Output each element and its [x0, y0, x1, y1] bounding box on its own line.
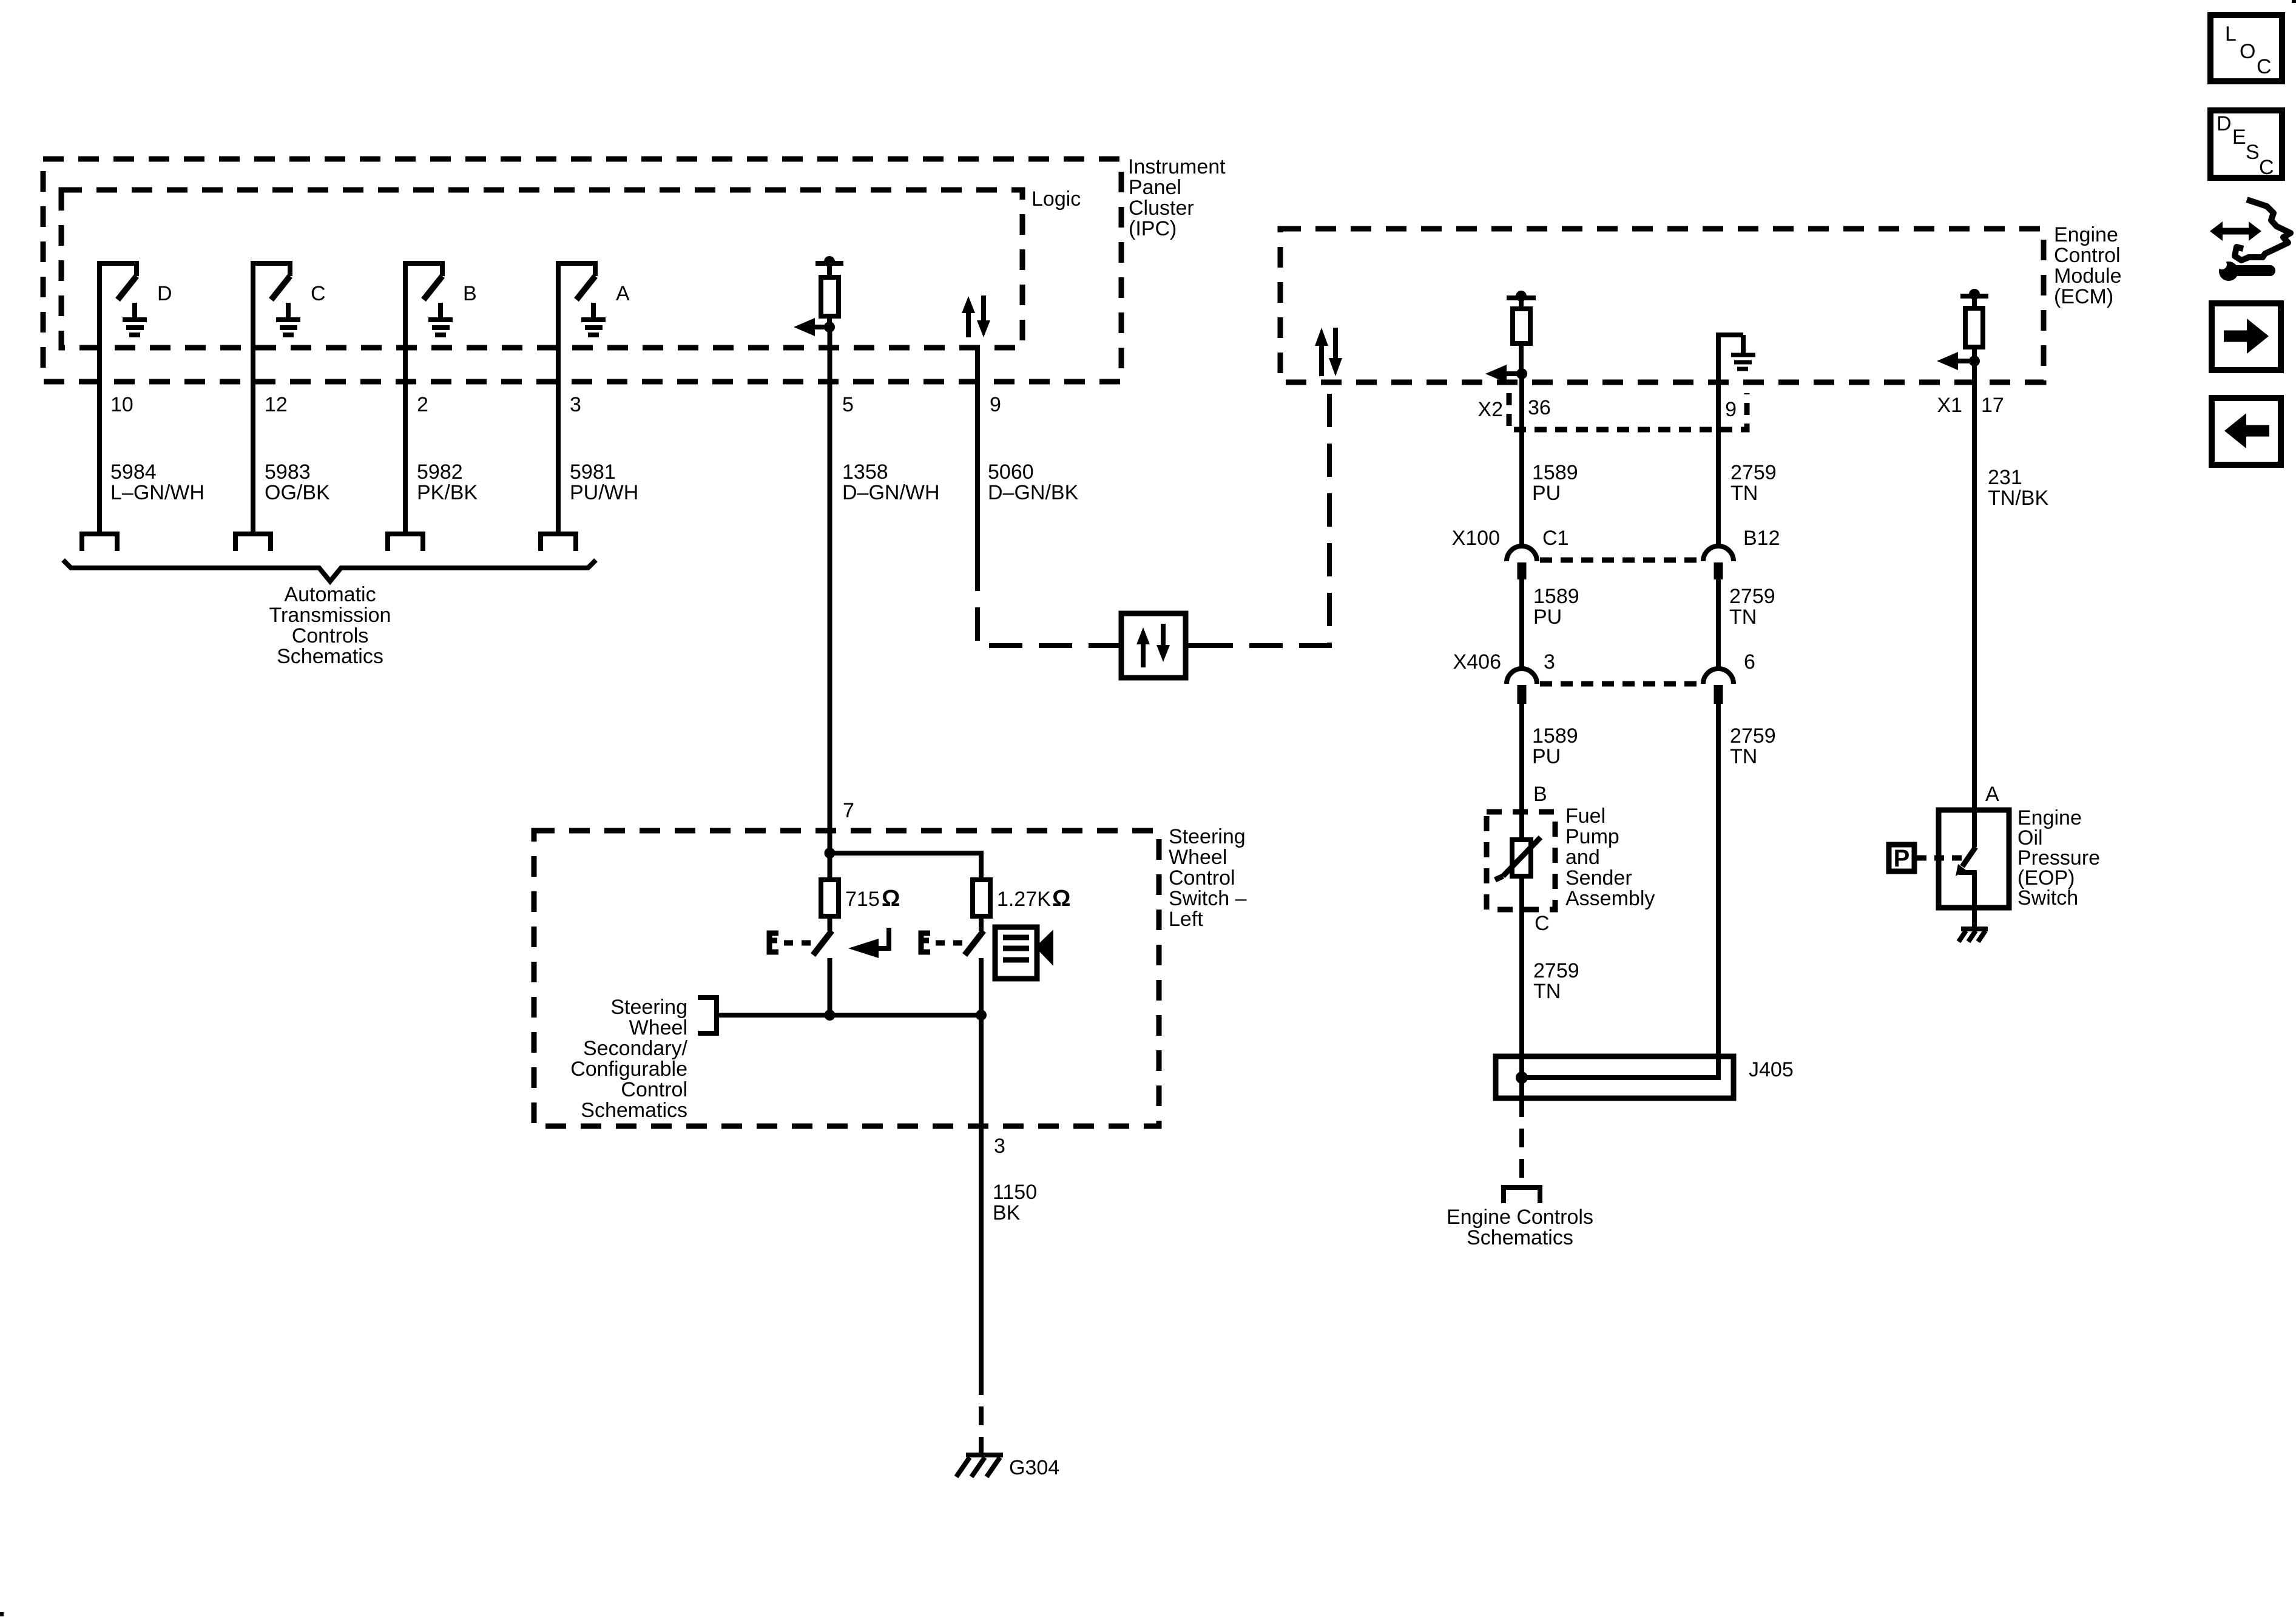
svg-text:B: B — [1533, 783, 1547, 806]
IPC Logic inner dashed box — [61, 190, 1022, 348]
Fuel Pump and Sender Assembly dashed box — [1487, 812, 1555, 910]
svg-text:Logic: Logic — [1032, 187, 1081, 211]
svg-text:C: C — [311, 282, 326, 305]
wire 231 (ECM pin 17 to EOP switch) — [1972, 361, 1977, 810]
svg-text:9: 9 — [990, 393, 1001, 416]
svg-text:3: 3 — [1544, 650, 1555, 673]
svg-text:D: D — [157, 282, 172, 305]
P actuator box — [1889, 845, 1914, 871]
svg-text:S: S — [2246, 141, 2260, 164]
svg-text:E: E — [2232, 126, 2246, 149]
wire 1589 PU segment 1 (ECM pin 36 to X100) — [1519, 374, 1524, 547]
Instrument Panel Cluster (IPC) outer dashed box — [43, 159, 1121, 382]
svg-text:O: O — [2240, 40, 2255, 63]
svg-text:715: 715 — [845, 888, 880, 911]
LOC icon box — [2210, 15, 2282, 81]
connector view icon part outline — [2235, 200, 2291, 260]
dashed wire off-page connector to ECM — [1200, 382, 1329, 646]
splice J405 wire stub left — [1519, 1059, 1524, 1098]
svg-text:G304: G304 — [1009, 1456, 1059, 1479]
wire EOP to ground — [1972, 908, 1977, 928]
svg-text:EngineControlModule(ECM): EngineControlModule(ECM) — [2054, 223, 2122, 308]
svg-text:B: B — [463, 282, 477, 305]
connector terminal for wire 5984 — [82, 534, 117, 551]
wire 1358 (pin 5) — [828, 327, 832, 853]
wire 2759 TN segment 2 (B12 to X406-6) — [1716, 579, 1721, 669]
ground at switch B — [428, 303, 453, 335]
X406 connector male pin 3 — [1518, 685, 1527, 704]
ground ECM internal (pin 9) — [1718, 335, 1755, 382]
splice junction node J405 — [1516, 1072, 1528, 1084]
junction node left switch — [825, 1010, 836, 1021]
DESC icon box — [2210, 110, 2282, 178]
svg-text:AutomaticTransmissionControlsS: AutomaticTransmissionControlsSchematics — [269, 583, 391, 668]
wire 5982 (pin 2) — [403, 263, 408, 534]
X406 dashed connector line — [1540, 681, 1704, 687]
back arrow — [2224, 413, 2269, 448]
wire branch to right resistor — [830, 853, 982, 880]
seek-left arrow icon — [848, 928, 889, 958]
dashed wire J405 to engine controls — [1519, 1098, 1524, 1187]
wire fuel pump C to J405 — [1519, 876, 1524, 1059]
Engine Control Module (ECM) dashed box — [1280, 229, 2044, 382]
svg-text:X2: X2 — [1477, 398, 1503, 421]
ground at EOP switch — [1959, 929, 1988, 942]
svg-text:Engine ControlsSchematics: Engine ControlsSchematics — [1447, 1206, 1593, 1249]
svg-text:J405: J405 — [1749, 1058, 1794, 1081]
actuator dashes horn switch — [936, 940, 964, 946]
actuator E for horn switch — [921, 933, 930, 952]
svg-text:7: 7 — [843, 799, 854, 822]
common junction wire of switch pair — [719, 1013, 981, 1018]
svg-text:X100: X100 — [1452, 527, 1500, 550]
svg-text:C: C — [1535, 912, 1550, 935]
resistor R1 IPC pull-up (pin 5) — [815, 256, 843, 327]
Engine Oil Pressure EOP Switch box — [1939, 810, 2009, 908]
X100 connector male pin C1 — [1518, 562, 1527, 579]
page mark bottom left — [0, 1612, 4, 1616]
X406 connector female half pin 6 — [1703, 669, 1734, 684]
svg-text:L: L — [2225, 22, 2237, 46]
B12 connector female half — [1703, 546, 1734, 561]
splice pack J405 box — [1496, 1056, 1734, 1098]
signal arrow at R2 junction — [1485, 365, 1527, 383]
wire 2759 TN segment 3 (X406-6 to J405) — [1716, 704, 1721, 1059]
svg-text:A: A — [1985, 783, 1999, 806]
dashed wire 1150 to ground — [979, 1376, 984, 1455]
off-page connector box (serial data link) — [1107, 613, 1200, 678]
wire below seek-left switch — [828, 958, 832, 1015]
X406 connector male pin 6 — [1714, 685, 1723, 704]
actuator dashes seek-left switch — [784, 940, 812, 946]
X100 dashed connector line — [1540, 558, 1704, 563]
svg-text:B12: B12 — [1743, 527, 1780, 550]
svg-text:C: C — [2259, 156, 2274, 179]
connector terminal for wire 5983 — [235, 534, 271, 551]
wire below horn switch — [979, 958, 984, 1015]
svg-text:9: 9 — [1725, 398, 1737, 421]
svg-text:2: 2 — [417, 393, 428, 416]
X100 connector female half C1 — [1507, 546, 1537, 561]
svg-text:3: 3 — [570, 393, 581, 416]
svg-text:5: 5 — [842, 393, 854, 416]
ground at switch C — [276, 303, 300, 335]
switch blade horn switch — [965, 916, 984, 955]
brace Automatic Transmission — [63, 560, 596, 581]
X406 connector female half pin 3 — [1507, 669, 1537, 684]
horn speaker icon — [995, 927, 1053, 979]
svg-text:3: 3 — [994, 1135, 1005, 1158]
up/down arrows IPC serial data — [962, 295, 990, 337]
svg-text:X1: X1 — [1937, 394, 1962, 417]
switch blade seek-left switch — [813, 916, 832, 955]
signal arrow at R1 junction — [794, 318, 835, 336]
up/down arrows ECM serial data — [1315, 328, 1342, 376]
wire 5983 (pin 12) — [251, 263, 255, 534]
junction node at top of switch pair — [825, 848, 836, 859]
dashed wire 5060 to off-page connector — [977, 558, 1107, 646]
up/down arrows in off-page box — [1136, 624, 1170, 667]
resistor R3 ECM pull-up (pin 17) — [1960, 289, 1988, 361]
actuator E for seek-left switch — [769, 933, 778, 952]
splice J405 internal wire — [1522, 1059, 1718, 1078]
bracket to steering wheel secondary schematics — [698, 998, 717, 1033]
B12 connector male pin — [1714, 562, 1723, 579]
svg-text:17: 17 — [1981, 394, 2004, 417]
svg-text:P: P — [1894, 845, 1910, 872]
connector view icon double arrow — [2210, 221, 2261, 241]
wire 2759 TN segment 1 (ECM pin 9 to B12) — [1716, 382, 1721, 547]
switch C — [253, 263, 290, 300]
ground at switch A — [581, 303, 606, 335]
junction node right switch — [976, 1010, 987, 1021]
svg-text:6: 6 — [1744, 650, 1755, 673]
svg-text:12: 12 — [265, 393, 288, 416]
wire into left resistor — [828, 853, 832, 880]
svg-text:1.27K: 1.27K — [997, 888, 1051, 911]
forward arrow icon box — [2212, 303, 2281, 370]
back arrow icon box — [2212, 398, 2281, 465]
wire 5060 (pin 9) solid segment — [975, 348, 980, 558]
Steering Wheel Control Switch Left dashed box — [534, 831, 1159, 1126]
wire 1150 (pin 3) solid segment — [979, 1015, 984, 1376]
forward arrow — [2224, 319, 2269, 354]
wire 1589 PU segment 3 (X406 to fuel pump) — [1519, 704, 1524, 840]
svg-text:X406: X406 — [1453, 650, 1501, 673]
switch A — [558, 263, 595, 300]
resistor R2 ECM pull-up (pin 36) — [1507, 291, 1536, 374]
connector terminal for wire 5981 — [541, 534, 576, 551]
resistor R4 715 ohm — [821, 880, 839, 916]
fuel level sender variable resistor — [1495, 837, 1541, 880]
svg-text:36: 36 — [1528, 396, 1551, 419]
connector view icon wrench — [2217, 260, 2270, 281]
connector terminal for wire 5982 — [388, 534, 423, 551]
svg-text:C: C — [2257, 55, 2272, 78]
page mark top right — [2292, 0, 2296, 3]
switch B — [405, 263, 442, 300]
connector terminal engine controls — [1504, 1187, 1540, 1203]
P actuator dashed line — [1917, 856, 1963, 861]
svg-text:Ω: Ω — [882, 886, 900, 911]
wire 5984 (pin 10) — [97, 263, 102, 534]
signal arrow at R3 junction — [1937, 352, 1980, 370]
X2 connector dashed bracket — [1509, 393, 1747, 430]
svg-text:10: 10 — [110, 393, 133, 416]
wire 5981 (pin 3) — [556, 263, 561, 534]
ground G304 — [956, 1455, 1003, 1477]
svg-text:Ω: Ω — [1052, 886, 1070, 911]
resistor R5 1.27K ohm — [973, 880, 990, 916]
ground at switch D — [123, 303, 147, 335]
wire 1589 PU segment 2 (X100 to X406) — [1519, 579, 1524, 669]
switch D — [100, 263, 137, 300]
svg-text:C1: C1 — [1542, 527, 1568, 550]
svg-text:A: A — [616, 282, 630, 305]
EOP switch internal contacts — [1956, 810, 1976, 908]
svg-text:D: D — [2217, 112, 2232, 135]
